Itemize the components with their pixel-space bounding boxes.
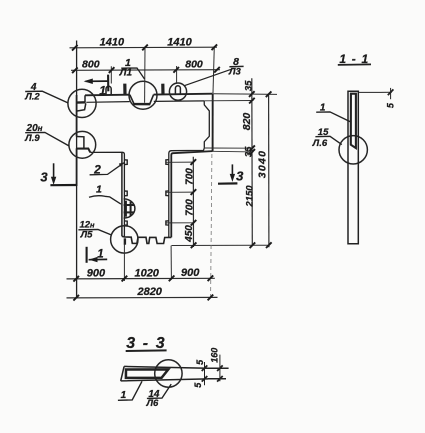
svg-text:3 - 3: 3 - 3 (126, 335, 166, 352)
svg-text:3: 3 (40, 170, 48, 185)
svg-text:1: 1 (96, 183, 102, 195)
svg-text:1: 1 (121, 390, 127, 401)
svg-text:1020: 1020 (134, 267, 159, 279)
svg-text:Л.9: Л.9 (24, 133, 40, 144)
svg-text:1410: 1410 (100, 36, 125, 48)
svg-text:35: 35 (243, 146, 254, 157)
svg-text:1: 1 (99, 83, 106, 97)
svg-text:Л3: Л3 (228, 67, 242, 78)
svg-text:Л.6: Л.6 (312, 138, 328, 149)
svg-text:2820: 2820 (136, 286, 162, 298)
svg-text:3: 3 (236, 168, 244, 183)
svg-text:Л.2: Л.2 (24, 92, 40, 103)
svg-text:700: 700 (184, 168, 195, 185)
svg-text:1 - 1: 1 - 1 (339, 52, 369, 66)
svg-text:800: 800 (82, 59, 100, 71)
svg-text:820: 820 (241, 113, 253, 131)
svg-text:900: 900 (87, 268, 106, 280)
svg-text:2: 2 (93, 162, 101, 176)
svg-text:2150: 2150 (245, 185, 256, 208)
svg-text:35: 35 (243, 80, 254, 91)
svg-text:3040: 3040 (257, 150, 269, 179)
svg-text:Л1: Л1 (119, 68, 133, 79)
svg-text:900: 900 (181, 267, 200, 279)
svg-text:1410: 1410 (167, 36, 192, 48)
svg-text:450: 450 (184, 225, 195, 243)
svg-text:Л6: Л6 (145, 398, 159, 409)
svg-text:15: 15 (318, 127, 329, 138)
svg-text:700: 700 (184, 199, 195, 216)
svg-text:Л5: Л5 (80, 230, 94, 241)
svg-text:1: 1 (97, 249, 103, 261)
svg-text:1: 1 (320, 102, 326, 113)
svg-text:160: 160 (209, 348, 219, 363)
svg-text:800: 800 (185, 59, 203, 71)
